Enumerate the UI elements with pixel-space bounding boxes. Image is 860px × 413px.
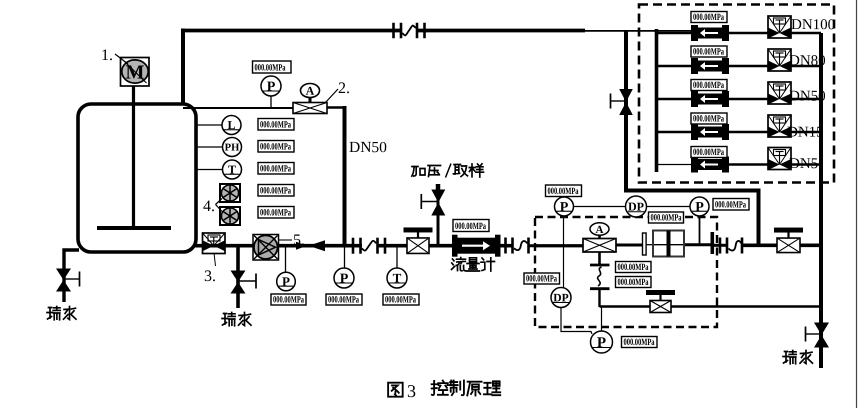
svg-text:000.00MPa: 000.00MPa [547, 187, 578, 197]
readout for T [258, 163, 294, 175]
readout for H1 [258, 185, 294, 197]
orifice plate [643, 233, 647, 255]
flow direction arrows on main pipe [296, 240, 325, 251]
label 3. valve callout [204, 253, 216, 285]
wire P2 stem down to main pipe [699, 216, 701, 245]
wire calibration row DN80 [657, 65, 822, 67]
wire DP to bottom P gauge [561, 308, 592, 335]
svg-text:DN5: DN5 [789, 156, 818, 172]
valve 3 tank outlet motor valve [203, 233, 226, 254]
svg-text:DN80: DN80 [789, 53, 826, 69]
pressure gauge P before connector [344, 247, 346, 268]
svg-text:3: 3 [407, 381, 416, 401]
readout 000.00 for gauge P top [253, 61, 292, 74]
label DN15 [787, 125, 824, 141]
flow meter main (arrow right) [452, 235, 501, 257]
control valve A inside skid [583, 223, 616, 252]
svg-text:000.00MPa: 000.00MPa [328, 295, 359, 305]
wire tank riser to top pipe [181, 29, 185, 105]
drain valve bottom right (black bowtie) [806, 323, 830, 348]
label jiaya/quyang pressurize-sampling [412, 164, 484, 178]
svg-text:P: P [267, 80, 276, 95]
wire calibration manifold right / drain header [819, 33, 823, 368]
flow meter row DN15 (arrow left) [691, 124, 729, 140]
wire bypass line from top pipe down and right [626, 31, 759, 246]
calibration rig dashed enclosure [639, 5, 834, 183]
readout row DN15 [691, 113, 727, 125]
readout for T main pipe [383, 294, 419, 306]
wire calibration row DN15 [657, 131, 822, 133]
svg-text:DN15: DN15 [787, 125, 824, 141]
hand valve outlet [774, 228, 803, 253]
flow meter row DN100 (arrow left) [691, 25, 729, 41]
svg-text:000.00MPa: 000.00MPa [617, 263, 648, 273]
label DN50 [789, 89, 826, 105]
svg-text:000.00MPa: 000.00MPa [260, 142, 291, 152]
svg-text:DN50: DN50 [789, 89, 826, 105]
readout seal pot upper [616, 262, 652, 274]
svg-text:000.00MPa: 000.00MPa [693, 81, 724, 91]
middle drain branch [236, 247, 240, 308]
bypass valve (black bowtie) on riser [611, 89, 633, 115]
flow meter row DN80 (arrow left) [691, 58, 729, 74]
svg-text:3.: 3. [204, 268, 216, 285]
pressure transmitter P1 [555, 197, 574, 216]
svg-text:000.00MPa: 000.00MPa [260, 164, 291, 174]
heater H2 crossed-circle [220, 207, 240, 225]
svg-text:DN100: DN100 [791, 17, 835, 33]
svg-text:2.: 2. [338, 80, 350, 97]
readout for DP lower [524, 273, 560, 285]
svg-text:A: A [306, 84, 315, 98]
svg-text:000.00MPa: 000.00MPa [693, 47, 724, 57]
svg-text:P: P [597, 335, 606, 351]
motor valve row DN100 [768, 16, 791, 39]
readout for P1 [546, 185, 582, 197]
pump 5 [253, 235, 279, 261]
pressure transmitter P2 [690, 197, 709, 216]
flexible connector main pipe 2 [506, 238, 529, 254]
wire instrument header line [183, 107, 346, 110]
readout for PH [258, 141, 294, 153]
wire left drain pipe [64, 250, 79, 302]
svg-text:000.00MPa: 000.00MPa [254, 63, 285, 73]
svg-text:M: M [126, 61, 145, 83]
wire valve A down stem [598, 252, 601, 264]
readout for P after pump [271, 294, 306, 306]
label shuishui right drain [783, 351, 813, 364]
motor M agitator drive [121, 58, 150, 87]
motor valve row DN80 [768, 49, 791, 72]
wire bottom P stem [601, 307, 603, 331]
svg-text:1.: 1. [101, 47, 113, 64]
svg-text:000.00MPa: 000.00MPa [623, 338, 654, 348]
readout row DN80 [691, 46, 727, 58]
pressurize/sampling branch [437, 184, 440, 247]
tank T1 [78, 104, 196, 252]
pressure gauge P bottom [591, 331, 613, 353]
label 5. pump callout [279, 232, 305, 249]
svg-text:000.00MPa: 000.00MPa [526, 274, 557, 284]
seal pot capacitor bars with coil [590, 265, 610, 307]
svg-text:000.00MPa: 000.00MPa [617, 278, 648, 288]
sample cell (divided box) [653, 231, 684, 257]
readout for L [258, 119, 294, 131]
wire calibration row DN50 [657, 98, 822, 100]
svg-text:000.00MPa: 000.00MPa [260, 208, 291, 218]
wire outlet pipe to manifold [743, 244, 822, 248]
readout seal pot lower [616, 277, 652, 289]
svg-text:DN50: DN50 [349, 139, 387, 156]
svg-text:000.00MPa: 000.00MPa [260, 120, 291, 130]
svg-text:000.00MPa: 000.00MPa [455, 222, 486, 232]
label DN50 [349, 139, 387, 156]
motor valve row DN5 [768, 148, 791, 171]
readout for H2 [258, 207, 294, 219]
temperature instrument T [195, 169, 223, 171]
svg-text:4.: 4. [203, 198, 215, 215]
label shuishui left drain [47, 307, 76, 320]
wire calibration manifold left [655, 29, 659, 172]
label DN80 [789, 53, 826, 69]
dp gauge DP lower left [551, 288, 571, 308]
svg-text:000.00MPa: 000.00MPa [693, 13, 724, 23]
drain valve middle (black bowtie) [231, 271, 257, 294]
wire top pipe thick segment [181, 29, 585, 33]
agitator paddle [97, 226, 171, 230]
readout for DP [649, 212, 684, 224]
analysis skid dashed enclosure [535, 217, 717, 327]
svg-text:P: P [695, 200, 704, 215]
pressure gauge P top with readout [270, 96, 272, 108]
svg-text:PH: PH [225, 143, 240, 154]
svg-text:000.00MPa: 000.00MPa [650, 213, 681, 223]
dp transmitter DP [626, 196, 647, 217]
label shuishui middle drain [222, 313, 251, 326]
label DN100 [791, 17, 835, 33]
readout for P2 [713, 199, 749, 211]
label DN5 [789, 156, 818, 172]
readout for P bottom [622, 337, 658, 349]
label 2. valve callout [325, 80, 350, 103]
caption figure 3 control principle [388, 381, 500, 401]
transmitter line P-DP-P [573, 206, 691, 208]
wire main pipe inside skid [536, 245, 728, 246]
wire DN50 riser [343, 106, 347, 247]
flexible connector outlet [720, 238, 742, 254]
drain valve left (black bowtie) [56, 269, 80, 292]
flow meter row DN5 (arrow left) [691, 157, 729, 173]
pressure gauge P after pump [285, 247, 287, 273]
flexible connector top pipe [394, 23, 425, 39]
hand valve main pipe [404, 227, 433, 253]
heater H1 crossed-circle [220, 184, 240, 202]
control valve 2 with actuator A [293, 84, 327, 114]
temperature gauge T main pipe [396, 247, 398, 268]
readout row DN50 [691, 80, 727, 92]
sampling valve (black bowtie) [421, 190, 445, 216]
label liuliangji flow meter [452, 258, 495, 272]
svg-text:000.00MPa: 000.00MPa [693, 148, 724, 158]
svg-text:000.00MPa: 000.00MPa [260, 186, 291, 196]
wire calibration row DN100 [657, 32, 822, 34]
wire lower branch line in skid [600, 305, 822, 308]
readout row DN5 [691, 147, 727, 159]
svg-text:000.00MPa: 000.00MPa [693, 114, 724, 124]
agitator shaft [132, 86, 135, 227]
flow meter row DN50 (arrow left) [691, 91, 729, 107]
readout row DN100 [691, 12, 727, 24]
label 1. motor callout [101, 47, 128, 64]
wire calibration row DN5 [657, 164, 822, 166]
wire right border line [856, 0, 858, 408]
readout for P before connector [326, 294, 362, 306]
flexible connector main pipe 1 [353, 238, 385, 254]
motor valve row DN15 [768, 115, 791, 138]
svg-text:P: P [340, 272, 349, 287]
readout for flow meter [453, 220, 489, 233]
wire top pipe thin segment into calibration box [585, 30, 691, 32]
label 4. heater callout [203, 198, 222, 215]
hand valve lower branch in skid [646, 290, 675, 313]
svg-text:000.00MPa: 000.00MPa [273, 295, 304, 305]
wire main outlet pipe [195, 244, 583, 248]
svg-text:P: P [560, 200, 569, 215]
level instrument L [195, 124, 222, 126]
svg-text:A: A [596, 224, 604, 236]
wire P1 stem down to DP gauge [563, 216, 565, 288]
svg-text:000.00MPa: 000.00MPa [385, 295, 416, 305]
flange bar after sample cell [711, 232, 715, 254]
motor valve row DN50 [768, 82, 791, 105]
pH instrument PH [195, 146, 223, 148]
svg-text:000.00MPa: 000.00MPa [715, 200, 746, 210]
